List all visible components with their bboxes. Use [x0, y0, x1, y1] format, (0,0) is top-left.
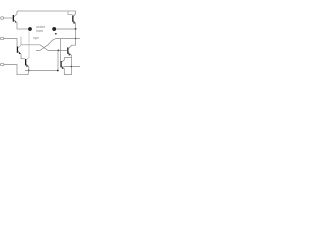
Q6 collector lead [62, 58, 72, 63]
wire bottom rail [25, 70, 58, 72]
wire Q5 base feed [21, 58, 25, 60]
Q1 emitter arrowhead [15, 20, 17, 22]
wire Q4 base feed [59, 49, 68, 51]
Q2 emitter arrowhead [73, 21, 75, 24]
node F junction dot [57, 70, 59, 72]
wire right vertical bus [75, 29, 77, 45]
wire center right segment [56, 28, 76, 30]
terminal J1 (upper left input) [1, 17, 4, 20]
transistor Q6 base bar [60, 61, 61, 67]
wire top rail [17, 10, 76, 12]
wire crossover B [36, 42, 51, 50]
Q1 collector lead [14, 11, 17, 17]
wire exit right mid [76, 38, 80, 40]
svg-text:horn: horn [36, 29, 43, 33]
terminal J2 (middle left input) [1, 37, 4, 40]
lamp symbol L1 [28, 27, 31, 30]
node D junction dot [71, 66, 73, 68]
Q3 emitter arrowhead [19, 51, 21, 54]
transistor Q2 base bar [72, 15, 73, 21]
node B junction dot [75, 38, 77, 40]
wire rail step down to Q2 base [68, 11, 73, 15]
transistor Q1 base bar [13, 15, 14, 22]
Q3 collector lead [18, 37, 21, 49]
lamp symbol L2 [52, 27, 56, 31]
wire jog to Q4 collector [71, 44, 75, 46]
Q4 emitter arrowhead [68, 53, 70, 56]
Q5 emitter lead [26, 64, 29, 71]
Q4 emitter lead [68, 52, 71, 66]
wire J3 to bottom rail [4, 65, 29, 75]
node E junction dot [28, 70, 30, 72]
transistor Q4 base bar [67, 47, 68, 53]
Q4 collector lead [68, 45, 71, 48]
node C junction dot [58, 50, 60, 52]
node A junction dot [75, 28, 77, 30]
wire J2 to Q3 [4, 39, 17, 47]
wire J1 to Q1 base [4, 17, 13, 19]
wire crossover A left [21, 45, 59, 51]
wire center left segment [17, 28, 28, 30]
wire node C down to bottom rail [57, 50, 59, 70]
Q5 collector lead [26, 31, 29, 60]
Q2 collector lead [73, 11, 75, 17]
Q6 emitter lead [62, 66, 72, 75]
Q2 emitter lead [73, 21, 75, 29]
Q6 emitter arrowhead [61, 66, 63, 69]
Q1 emitter lead with arrow [14, 20, 17, 29]
wire exit right low [64, 66, 81, 68]
label mark near L2 [55, 33, 57, 35]
transistor Q5 base bar [25, 59, 26, 65]
Q5 emitter arrowhead [26, 64, 28, 67]
wire curve up to mid bus [51, 39, 76, 43]
svg-text:npn: npn [34, 36, 40, 40]
Q3 emitter lead [18, 51, 21, 58]
terminal J3 (bottom left input) [1, 63, 4, 66]
transistor Q3 base bar [17, 46, 18, 52]
wire Q6 base feed [60, 39, 62, 62]
